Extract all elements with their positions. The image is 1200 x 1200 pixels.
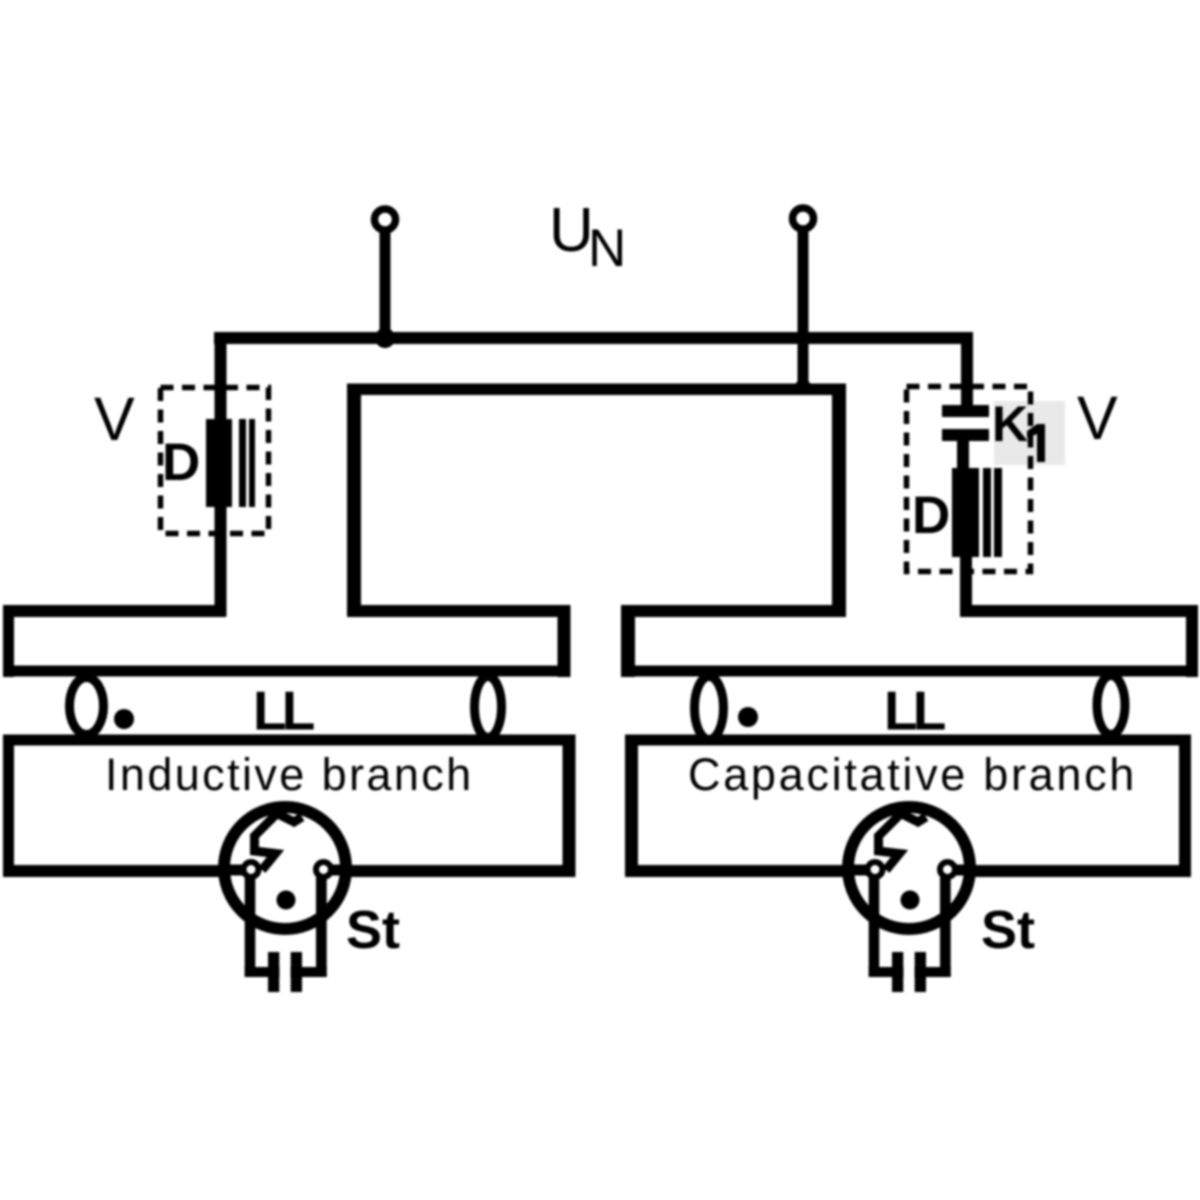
starter stub left <box>844 865 870 876</box>
wire left branch vertical (through ballast) <box>215 332 227 617</box>
starter bimetal zigzag <box>879 814 927 871</box>
lamp LL right: tube top line <box>621 666 1198 677</box>
starter dot <box>277 891 296 910</box>
lamp LL right: cathode dot <box>738 707 758 727</box>
wire right bottom-rect left edge <box>625 735 638 878</box>
svg-text:St: St <box>981 900 1035 960</box>
ballast D right: bar 2 <box>994 468 1002 557</box>
ballast D right: core rect <box>952 468 979 557</box>
ballast D right: bar 1 <box>983 468 991 557</box>
dashed box V (left ballast enclosure) <box>161 388 269 534</box>
starter body white fill <box>229 812 341 924</box>
lamp LL left: filament coil right <box>475 677 502 738</box>
starter U bottom right <box>291 967 327 977</box>
lamp LL left: tube bottom line <box>3 735 576 746</box>
wire left bottom-rect bottom edge <box>3 865 576 877</box>
svg-text:V: V <box>1077 384 1118 452</box>
wire inner rect top <box>347 384 846 396</box>
wire inner rect left edge <box>347 384 361 617</box>
terminal T2 (right mains terminal) <box>793 208 814 229</box>
starter bimetal zigzag <box>255 814 303 871</box>
wire left staircase vertical <box>558 605 571 677</box>
starter stub right <box>328 865 350 876</box>
starter St2 (right glow starter) <box>844 807 974 992</box>
lamp LL left: cathode dot <box>114 709 134 729</box>
dashed box V (right ballast enclosure) <box>907 387 1031 572</box>
starter leg left <box>869 877 880 977</box>
wire right bottom-rect bottom edge <box>625 865 1191 877</box>
starter ring <box>848 807 970 929</box>
starter pin right <box>291 952 302 992</box>
starter leg right <box>316 877 327 977</box>
svg-text:Capacitative branch: Capacitative branch <box>688 749 1137 800</box>
wire bus (top horizontal) <box>214 332 973 344</box>
wire left bottom-rect right edge <box>563 735 576 878</box>
starter dot <box>901 891 920 910</box>
wire T2 down to inner rect top <box>798 230 809 389</box>
label K1 subscript 1 <box>1027 424 1045 462</box>
ballast D left: core rect <box>206 419 232 507</box>
svg-text:N: N <box>588 219 626 278</box>
capacitor K1 plate 2 <box>942 429 989 441</box>
starter St1 (left glow starter) <box>220 807 350 992</box>
lamp LL left: tube top line <box>3 666 570 677</box>
svg-text:LL: LL <box>884 680 945 742</box>
starter leg left <box>245 877 256 977</box>
starter leg right <box>940 877 951 977</box>
lamp LL right: filament coil left <box>695 677 724 740</box>
wire left wrap vertical <box>3 605 14 677</box>
terminal T1 (left mains terminal) <box>375 209 396 230</box>
wire T1 down to bus <box>380 231 391 338</box>
wire left wrap horizontal <box>3 605 226 617</box>
starter U bottom right <box>915 967 951 977</box>
highlight box behind K1 <box>994 401 1065 465</box>
starter pin left <box>892 952 903 992</box>
ballast D left: bar 2 <box>249 419 255 507</box>
lamp LL right: filament coil right <box>1097 676 1125 735</box>
wire right bottom-rect right edge <box>1179 735 1191 878</box>
svg-text:Inductive branch: Inductive branch <box>105 749 474 800</box>
svg-text:D: D <box>912 486 950 545</box>
capacitor K1 plate 1 <box>942 405 989 417</box>
wire right staircase vertical <box>621 605 635 677</box>
lamp LL right: tube bottom line <box>625 735 1191 746</box>
svg-text:K: K <box>992 396 1028 452</box>
starter terminal right <box>316 862 331 877</box>
starter stub left <box>220 865 246 876</box>
starter U bottom left <box>869 967 904 977</box>
node junction dot right (inner rect) <box>795 379 811 395</box>
ballast D left: bar 1 <box>239 419 246 507</box>
svg-text:LL: LL <box>253 680 314 742</box>
starter pin right <box>915 952 926 992</box>
wire right branch vertical lower (ballast to wrap) <box>960 557 972 617</box>
starter stub right <box>952 865 974 876</box>
wire capacitor to ballast stub <box>957 441 969 468</box>
starter body white fill <box>853 812 965 924</box>
starter terminal left <box>868 862 883 877</box>
starter pin left <box>268 952 279 992</box>
wire right wrap horizontal <box>960 605 1198 617</box>
node junction dot left (bus) <box>375 328 395 348</box>
lamp LL left: filament coil left <box>70 678 104 735</box>
wire left bottom-rect left edge <box>3 735 14 878</box>
svg-text:V: V <box>94 385 135 453</box>
svg-text:St: St <box>346 900 400 960</box>
wire right branch vertical upper (bus corner to capacitor) <box>961 332 973 406</box>
wire right wrap vertical <box>1186 605 1198 677</box>
wire inner rect right edge <box>832 384 846 617</box>
starter terminal left <box>244 862 259 877</box>
wire left staircase horizontal <box>347 605 571 617</box>
svg-text:D: D <box>162 433 200 492</box>
starter terminal right <box>940 862 955 877</box>
wire right staircase horizontal <box>621 605 846 617</box>
starter U bottom left <box>245 967 280 977</box>
starter ring <box>224 807 346 929</box>
